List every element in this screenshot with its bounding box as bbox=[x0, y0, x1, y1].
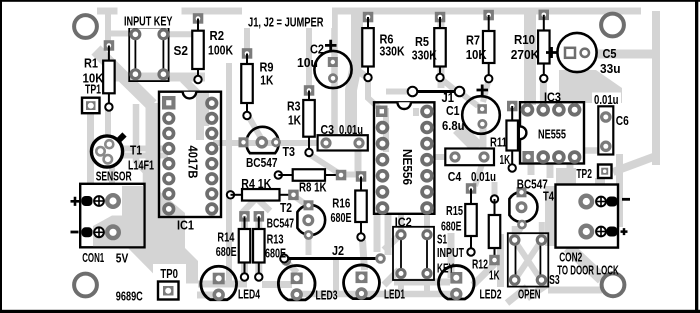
capacitor C3 bbox=[318, 135, 368, 150]
svg-text:INPUT: INPUT bbox=[437, 245, 464, 260]
wire T1 to IC1 pins lower bbox=[114, 153, 168, 159]
svg-text:L14F1: L14F1 bbox=[128, 158, 154, 173]
svg-text:C3: C3 bbox=[321, 122, 335, 137]
svg-text:BC547: BC547 bbox=[267, 216, 295, 231]
svg-text:R11: R11 bbox=[490, 135, 507, 150]
resistor R12 bbox=[489, 195, 501, 265]
svg-text:LED3: LED3 bbox=[316, 288, 338, 303]
wire band across S2 bbox=[112, 73, 205, 82]
transistor T3 BC547 bbox=[239, 127, 281, 153]
svg-text:TP0: TP0 bbox=[160, 266, 178, 281]
resistor R3 bbox=[303, 85, 315, 156]
svg-text:330K: 330K bbox=[412, 48, 437, 63]
wire through T3 pins to C3 bbox=[213, 140, 327, 146]
sensor T1 L14F1 bbox=[91, 135, 124, 168]
wire blob under C1 bbox=[458, 128, 478, 148]
wire T1 centre down bbox=[109, 160, 115, 186]
svg-text:R13: R13 bbox=[267, 232, 284, 247]
wire inside NE556 bbox=[386, 108, 416, 152]
wire below CON2 to corner bbox=[568, 247, 602, 279]
capacitor C6 bbox=[598, 106, 613, 154]
LED LED3 bbox=[278, 266, 315, 301]
wire R4 right pad to T2 bbox=[294, 196, 308, 206]
svg-text:270K: 270K bbox=[511, 47, 540, 62]
wire S2 right pin to R2 bbox=[166, 31, 195, 37]
wire under TP2 bbox=[595, 178, 605, 185]
resistor R8 bbox=[275, 169, 347, 181]
svg-text:NE555: NE555 bbox=[538, 126, 566, 141]
svg-text:J2: J2 bbox=[332, 243, 344, 258]
wire IC2 to LED1 bbox=[384, 270, 399, 285]
wire J1 left to NE556 bbox=[386, 89, 413, 95]
resistor R16 bbox=[355, 171, 367, 241]
svg-text:BC547: BC547 bbox=[246, 155, 278, 170]
svg-text:9689C: 9689C bbox=[116, 289, 143, 304]
svg-text:C1: C1 bbox=[446, 103, 460, 118]
svg-text:4017B: 4017B bbox=[186, 146, 201, 179]
wire inside IC1 bbox=[203, 92, 209, 126]
resistor R10 bbox=[538, 10, 550, 83]
svg-text:LED1: LED1 bbox=[384, 286, 405, 301]
resistor R14 bbox=[239, 211, 251, 281]
svg-text:NE556: NE556 bbox=[400, 149, 415, 185]
wire R9 bottom to T3 bbox=[247, 113, 262, 138]
LED LED2 bbox=[439, 266, 475, 301]
plus CON1 bbox=[71, 197, 80, 206]
jumper J2 bbox=[280, 253, 386, 264]
svg-text:33u: 33u bbox=[600, 61, 621, 76]
wire below S3 diagonals bbox=[507, 284, 548, 303]
via above LED3 bbox=[281, 255, 291, 265]
wire stub to R1 pad bbox=[105, 11, 111, 44]
wire into LED3 bbox=[262, 281, 292, 288]
svg-text:330K: 330K bbox=[380, 44, 405, 59]
resistor R9 bbox=[241, 48, 253, 119]
svg-text:TO DOOR LOCK: TO DOOR LOCK bbox=[557, 263, 619, 278]
mounting hole bottom-left bbox=[74, 274, 97, 297]
svg-text:1K: 1K bbox=[489, 267, 500, 282]
svg-text:680E: 680E bbox=[216, 244, 237, 259]
wire R8 right pad to R16 pad bbox=[344, 172, 358, 178]
label INPUT KEY bbox=[118, 4, 182, 28]
jumper J1 bbox=[408, 87, 465, 97]
switch S3 bbox=[508, 233, 549, 286]
capacitor C5 bbox=[557, 33, 596, 72]
wire left of S3 vertical bbox=[497, 234, 504, 287]
wire NE556 to R16 pad bbox=[355, 150, 362, 172]
wire band R7 to IC3 bbox=[524, 13, 536, 105]
svg-text:T1: T1 bbox=[130, 143, 142, 158]
resistor R1 bbox=[103, 40, 115, 111]
wire right rail vertical bbox=[652, 11, 660, 165]
svg-text:100K: 100K bbox=[208, 43, 233, 58]
svg-text:5V: 5V bbox=[116, 251, 129, 266]
svg-text:680E: 680E bbox=[265, 245, 286, 260]
wire IC2 pins down bbox=[401, 274, 427, 294]
svg-text:CON1: CON1 bbox=[82, 250, 104, 265]
plus CON2 bbox=[621, 228, 628, 235]
plus C2 bbox=[325, 40, 337, 51]
capacitor C1 bbox=[462, 96, 500, 134]
wire stub to R9 pad bbox=[244, 13, 250, 52]
svg-text:R12: R12 bbox=[472, 256, 488, 271]
resistor R2 bbox=[192, 13, 204, 83]
wire IC2 pins up bbox=[401, 214, 427, 230]
svg-text:C6: C6 bbox=[616, 113, 629, 128]
svg-text:0.01u: 0.01u bbox=[471, 169, 496, 184]
svg-text:680E: 680E bbox=[331, 210, 352, 225]
svg-text:10K: 10K bbox=[466, 47, 487, 62]
connector CON2 bbox=[556, 185, 619, 248]
wire T1 to IC1 pins bbox=[114, 146, 168, 152]
wire C1 to C4 bbox=[480, 125, 487, 158]
svg-text:0.01u: 0.01u bbox=[594, 92, 619, 107]
wire IC2 to lower left bbox=[384, 236, 399, 250]
wire left of T1 down to CON1 bbox=[87, 113, 94, 184]
mounting hole top-left bbox=[74, 15, 97, 38]
resistor R4 bbox=[227, 189, 299, 201]
wire LED4 cathode left bbox=[197, 292, 219, 299]
wire rail right of CON2 bbox=[616, 154, 623, 227]
wire C2 to R6 bottom bbox=[351, 66, 368, 78]
svg-text:C4: C4 bbox=[448, 169, 462, 184]
wire R13 pad up bbox=[248, 190, 270, 211]
svg-text:KEY: KEY bbox=[437, 260, 454, 275]
wire S3 cross diagonals bbox=[516, 242, 541, 279]
ground plane right of CON1 bbox=[143, 190, 186, 248]
label J1 J2 JUMPER note bbox=[242, 5, 332, 28]
svg-text:1K: 1K bbox=[260, 73, 273, 88]
wire stub to R3 pad bbox=[306, 13, 312, 88]
resistor R13 bbox=[253, 211, 264, 281]
svg-text:IC3: IC3 bbox=[544, 89, 561, 104]
wire C4 left to NE556 bbox=[435, 154, 455, 160]
svg-text:10u: 10u bbox=[297, 55, 318, 70]
wire plane above CON2 bbox=[556, 168, 576, 185]
wire stub to C2 positive pad bbox=[331, 12, 338, 142]
svg-text:R4 1K: R4 1K bbox=[241, 176, 271, 191]
IC3 NE555 socket bbox=[520, 102, 584, 164]
wire R4 left down to LED4 bbox=[226, 193, 232, 284]
svg-text:T4: T4 bbox=[543, 189, 554, 204]
svg-text:R15: R15 bbox=[446, 203, 463, 218]
svg-text:S3: S3 bbox=[549, 272, 560, 287]
wire R7 bottom to C1 plus bbox=[483, 80, 489, 102]
wire IC3 pin down to CON2 bbox=[567, 163, 574, 184]
transistor T2 BC547 bbox=[297, 200, 325, 240]
wire stub top to J1 area bbox=[438, 11, 445, 88]
IC2 opto socket bbox=[393, 227, 434, 280]
wire S1 area vertical bbox=[448, 233, 455, 278]
wire R14 pad up bbox=[242, 190, 264, 213]
wire T2 down bbox=[306, 238, 312, 255]
svg-text:T2: T2 bbox=[280, 200, 292, 215]
wire R12 pad to LED2 bbox=[473, 264, 495, 285]
wire S3 to bottom-right ring bbox=[548, 287, 602, 294]
wire under IC2 bbox=[394, 279, 450, 286]
wire through LED4 anode bbox=[198, 281, 247, 288]
wire R13 body down bbox=[255, 216, 262, 277]
wire right of T1 down bbox=[136, 104, 146, 184]
svg-text:0.01u: 0.01u bbox=[339, 122, 363, 137]
wire R12 top up bbox=[492, 182, 498, 198]
svg-text:R2: R2 bbox=[210, 28, 225, 43]
wire plane left of CON2 bbox=[545, 186, 556, 246]
wire IC1 pin stubs down bbox=[167, 208, 212, 218]
wire C5 to right rail bbox=[596, 50, 656, 59]
wire R6 bottom down to NE556 bbox=[368, 78, 379, 108]
svg-text:INPUT KEY: INPUT KEY bbox=[124, 14, 173, 29]
svg-text:T3: T3 bbox=[283, 144, 296, 159]
svg-text:OPEN: OPEN bbox=[518, 287, 541, 302]
transistor T4 BC547 bbox=[509, 187, 537, 229]
wire diagonal band top-left bbox=[96, 50, 152, 105]
svg-text:1K: 1K bbox=[500, 152, 511, 167]
svg-text:6.8u: 6.8u bbox=[442, 118, 465, 133]
svg-text:C5: C5 bbox=[603, 46, 617, 61]
wire C5 left lead down bbox=[563, 71, 570, 98]
plus C1 bbox=[477, 85, 489, 96]
svg-text:R14: R14 bbox=[217, 229, 234, 244]
wire R16 bottom to LED1 bbox=[363, 240, 365, 270]
LED LED1 bbox=[344, 265, 380, 300]
switch S2 bbox=[129, 28, 169, 82]
plus C5 bbox=[546, 47, 557, 58]
wire right rail to TP2 bbox=[613, 156, 656, 172]
IC1 4017B socket bbox=[159, 92, 221, 217]
capacitor C4 bbox=[445, 149, 494, 166]
resistor R11 bbox=[506, 101, 518, 172]
wire S3 right pin up bbox=[539, 222, 545, 236]
wire R3 pad diag bbox=[309, 154, 340, 174]
resistor R7 bbox=[483, 10, 495, 83]
wire R1 bottom to T1 bbox=[105, 108, 111, 140]
svg-text:R7: R7 bbox=[466, 33, 480, 48]
svg-text:1K: 1K bbox=[288, 113, 301, 128]
wire top supply bus bbox=[97, 8, 641, 15]
minus CON2 bbox=[622, 198, 630, 201]
wire vertical band left of IC1 bbox=[146, 103, 159, 218]
wire R10 bottom to IC3 bbox=[540, 80, 547, 108]
svg-text:LED2: LED2 bbox=[480, 287, 502, 302]
resistor R6 bbox=[362, 12, 374, 81]
plane under C5 bbox=[559, 70, 622, 103]
mounting hole bottom-right bbox=[602, 273, 625, 296]
test point TP1 bbox=[82, 98, 100, 114]
test point TP2 bbox=[598, 165, 612, 179]
svg-text:IC2: IC2 bbox=[395, 214, 412, 229]
wire R5 bottom to J1 right bbox=[440, 78, 455, 90]
svg-text:R1: R1 bbox=[84, 56, 98, 71]
wire LED3 to LED2 long band bbox=[297, 291, 456, 298]
wire from S2 to IC1 notch bbox=[183, 79, 200, 140]
svg-text:J1, J2 = JUMPER: J1, J2 = JUMPER bbox=[248, 15, 324, 30]
svg-text:R3: R3 bbox=[287, 99, 301, 114]
svg-text:TP2: TP2 bbox=[576, 166, 592, 181]
capacitor C2 bbox=[314, 51, 351, 88]
svg-text:LED4: LED4 bbox=[238, 286, 260, 301]
svg-text:R10: R10 bbox=[514, 32, 535, 47]
svg-text:R16: R16 bbox=[332, 195, 350, 210]
svg-text:IC1: IC1 bbox=[177, 218, 194, 233]
wire band C2 to C3 right bbox=[351, 12, 357, 133]
board frame bbox=[0, 0, 700, 2]
wire bus to S2 left pin bbox=[108, 31, 133, 37]
wire IC3 pins down to T4 area bbox=[531, 164, 550, 178]
wire T4 to S3 bbox=[515, 226, 522, 238]
test point TP0 bbox=[153, 264, 186, 302]
IC NE556 socket bbox=[374, 102, 434, 215]
wire J1 right to C1 bbox=[460, 92, 479, 106]
wire R14 body down bbox=[241, 216, 248, 277]
wire NE556 pin down left bbox=[374, 214, 381, 252]
svg-text:SENSOR: SENSOR bbox=[96, 169, 132, 184]
wire J2 area down to band bbox=[333, 258, 339, 292]
mounting hole top-right bbox=[601, 14, 624, 37]
wire IC3 to C6 bottom bbox=[583, 147, 599, 154]
LED LED4 bbox=[201, 266, 237, 301]
wire NE556 pin down right bbox=[385, 214, 392, 255]
wire J2 to LED3 pad bbox=[284, 260, 297, 273]
svg-text:S2: S2 bbox=[174, 43, 189, 58]
wire long vertical IC1 right to R4 bbox=[226, 63, 232, 193]
connector CON1 bbox=[80, 184, 144, 248]
resistor R15 bbox=[465, 183, 477, 256]
svg-text:TP1: TP1 bbox=[85, 82, 101, 97]
minus CON1 bbox=[71, 231, 79, 234]
resistor R5 bbox=[434, 12, 446, 81]
wire R15 pad up to C4 bbox=[475, 161, 483, 186]
svg-text:R8 1K: R8 1K bbox=[299, 180, 327, 195]
